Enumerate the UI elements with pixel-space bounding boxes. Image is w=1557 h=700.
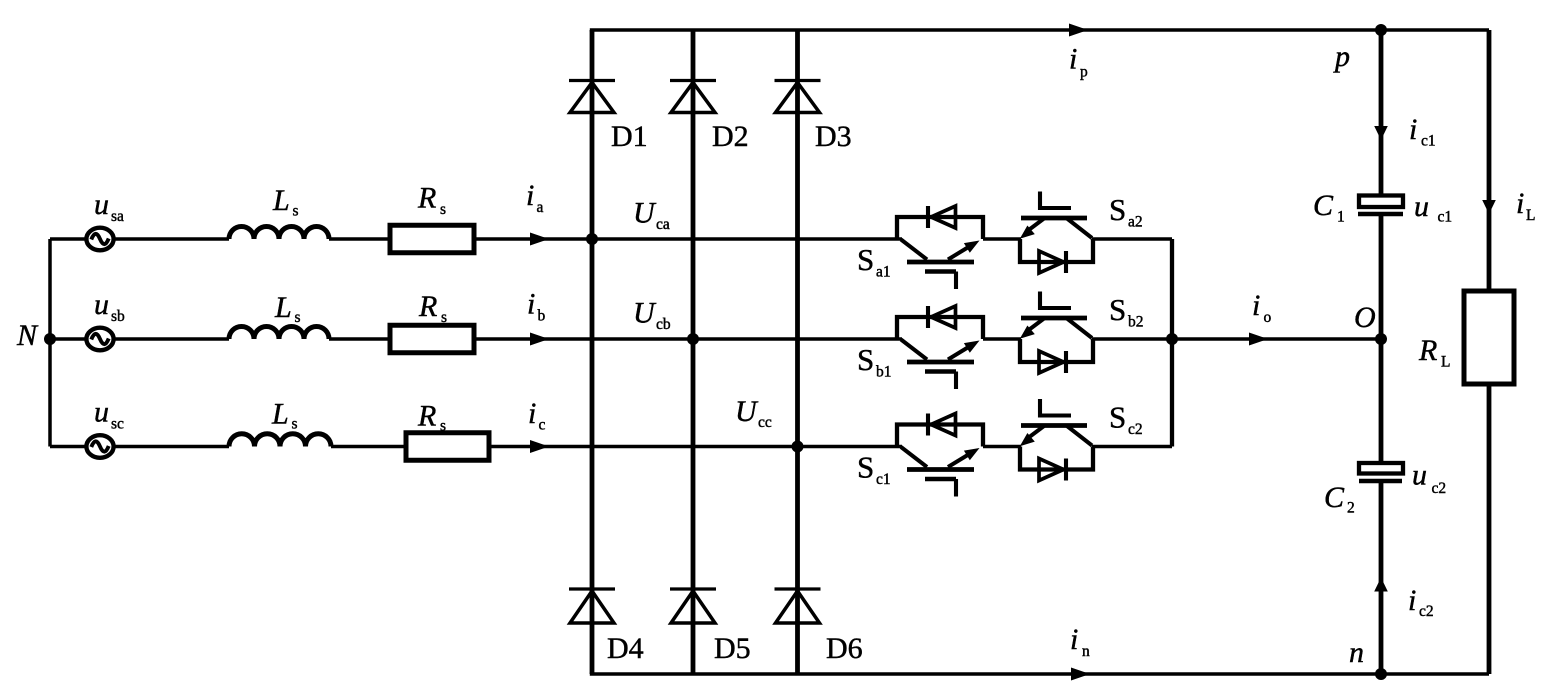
label D1 [611,120,648,153]
svg-text:R: R [417,182,436,215]
wire phase b from N to source [50,337,86,340]
ac source u_sb [86,328,113,351]
svg-text:i: i [1069,43,1077,76]
label u_c2 [1412,459,1446,498]
svg-text:L: L [1441,354,1450,371]
svg-text:n: n [1349,636,1364,669]
label S_b2 [1109,292,1144,331]
resistor Rs phase b [390,325,474,353]
label Ls phase c [271,398,298,433]
switch S_a1 (IGBT with antiparallel diode) [897,206,983,289]
switch S_c1 (IGBT with antiparallel diode) [897,414,983,497]
wire phase a resistor to bridge [474,237,902,240]
ac source u_sa [86,228,113,251]
svg-text:S: S [1109,400,1126,435]
wire right load branch [1487,30,1492,674]
label D6 [826,632,863,665]
label D4 [607,632,644,665]
svg-text:N: N [16,319,39,352]
wire C2 to n [1379,481,1384,674]
svg-text:s: s [441,309,447,326]
label RL [1418,334,1450,371]
current arrow i_o [1249,333,1268,346]
svg-text:L: L [274,291,292,324]
wire i_o to node O [1172,337,1381,340]
label i_c1 [1409,113,1436,150]
svg-text:ca: ca [656,216,670,233]
diode D5 [670,589,716,623]
svg-text:s: s [293,203,299,220]
svg-text:o: o [1264,309,1272,326]
svg-text:u: u [94,288,109,321]
svg-text:R: R [1418,334,1437,367]
svg-text:R: R [417,400,436,433]
node n junction dot [1375,668,1387,680]
svg-text:b1: b1 [876,364,892,381]
svg-text:u: u [1412,459,1427,492]
svg-text:i: i [1252,289,1260,322]
wire C1 to C2 through O [1379,215,1384,464]
node phase a - D1 leg junction dot [586,233,598,245]
current arrow i_c2 [1374,578,1388,592]
wire between S_c1 and S_c2 [983,445,1021,448]
label D2 [712,120,749,153]
svg-text:D2: D2 [712,120,749,153]
svg-text:U: U [735,395,759,428]
svg-text:C: C [1313,189,1334,222]
svg-text:a: a [537,199,544,216]
wire phase b source to inductor [114,337,229,340]
current arrow i_n [1071,668,1090,681]
current arrow i_L [1482,200,1496,214]
label S_a2 [1109,192,1143,231]
svg-text:i: i [1408,584,1416,617]
label i_L [1516,187,1535,224]
label u_sa [94,188,124,225]
diode D3 [775,81,821,113]
svg-text:s: s [295,309,301,326]
wire between S_a1 and S_a2 [983,237,1021,240]
label D3 [815,120,852,153]
inductor Ls phase c [229,434,331,447]
svg-text:L: L [1526,207,1535,224]
label C2 [1324,481,1355,517]
wire phase c inductor to resistor [331,445,406,448]
capacitor C2 [1359,463,1403,481]
svg-text:U: U [633,297,657,330]
svg-text:c2: c2 [1432,480,1447,497]
svg-text:s: s [292,416,298,433]
svg-text:c1: c1 [1421,133,1436,150]
capacitor C1 [1358,196,1403,215]
label O [1354,301,1376,334]
label n [1349,636,1364,669]
label u_sb [94,288,125,325]
wire phase b inductor to resistor [329,337,390,340]
svg-text:c1: c1 [876,471,891,488]
wire diode leg D3-D6 [795,30,800,674]
svg-text:i: i [526,179,534,212]
label S_c2 [1109,400,1143,439]
label i_p [1069,43,1088,81]
svg-text:i: i [528,397,536,430]
node N junction dot [44,333,56,345]
wire between S_b1 and S_b2 [983,337,1021,340]
svg-text:D3: D3 [815,120,852,153]
wire midpoint bus [1170,239,1174,447]
node phase b - D2 leg junction dot [687,333,699,345]
wire phase a source to inductor [114,237,229,240]
label U_ca [633,197,670,234]
svg-text:a2: a2 [1128,214,1143,231]
svg-text:cc: cc [758,414,772,431]
svg-text:u: u [1414,190,1429,223]
switch S_b1 (IGBT with antiparallel diode) [897,306,983,389]
current arrow i_a [530,233,549,246]
svg-text:U: U [633,197,657,230]
label i_n [1070,623,1090,660]
label D5 [714,632,751,665]
wire diode leg D1-D4 [590,30,595,674]
label Rs phase a [417,182,446,219]
svg-text:O: O [1354,301,1376,334]
diode D2 [670,81,716,113]
svg-text:S: S [1109,192,1126,227]
diode D6 [775,589,821,623]
wire phase b resistor to bridge [474,337,902,340]
label i_c2 [1408,584,1434,620]
svg-text:s: s [440,201,446,218]
label i_a [526,179,544,216]
svg-text:n: n [1082,643,1090,660]
svg-text:2: 2 [1347,500,1355,517]
wire diode leg D2-D5 [691,30,696,674]
node O junction dot [1375,333,1387,345]
svg-text:i: i [1409,113,1417,146]
label Rs phase c [417,400,446,435]
label u_sc [94,396,124,433]
wire S_a2 output to midpoint bus [1092,237,1172,240]
label Ls phase a [272,184,299,220]
resistor Rs phase a [390,225,474,253]
node midpoint bus - i_o junction dot [1166,333,1178,345]
node p junction dot [1375,24,1387,36]
label U_cc [735,395,772,431]
svg-text:L: L [271,398,289,431]
label Ls phase b [274,291,301,326]
svg-text:1: 1 [1337,209,1345,226]
svg-text:D1: D1 [611,120,648,153]
svg-text:a1: a1 [876,264,891,281]
svg-text:D6: D6 [826,632,863,665]
wire phase a inductor to resistor [329,237,390,240]
resistor Rs phase c [406,433,489,461]
wire phase c from N to source [50,445,86,448]
svg-text:p: p [1333,40,1350,73]
svg-text:s: s [440,418,446,435]
current arrow i_c1 [1374,126,1388,140]
wire p to C1 [1379,30,1384,196]
svg-text:D4: D4 [607,632,644,665]
svg-text:L: L [272,184,290,217]
label p [1333,40,1350,73]
label i_b [527,288,546,325]
svg-text:cb: cb [656,316,671,333]
label u_c1 [1414,190,1452,226]
svg-text:S: S [857,450,874,485]
node phase c - D3 leg junction dot [792,441,804,453]
switch S_c2 (IGBT with antiparallel diode) [1020,399,1093,481]
svg-text:R: R [418,290,437,323]
svg-text:D5: D5 [714,632,751,665]
svg-text:c1: c1 [1438,209,1453,226]
ac source u_sc [86,435,113,458]
svg-text:i: i [1516,187,1524,220]
label C1 [1313,189,1345,226]
diode D1 [569,81,615,113]
current arrow i_c [530,440,549,453]
wire phase c resistor to bridge [489,445,902,448]
current arrow i_p [1069,24,1088,37]
svg-text:sc: sc [111,416,124,433]
svg-text:b2: b2 [1128,314,1144,331]
inductor Ls phase b [229,327,329,340]
svg-text:C: C [1324,481,1345,514]
wire top dc rail p [590,28,1489,31]
wire neutral bus N [48,239,52,447]
label i_o [1252,289,1272,326]
svg-text:sb: sb [111,308,125,325]
svg-text:S: S [1109,292,1126,327]
wire bottom dc rail n [590,672,1489,675]
label N [16,319,39,352]
label Rs phase b [418,290,447,326]
diode D4 [569,589,615,623]
svg-text:sa: sa [111,208,124,225]
label S_a1 [857,242,891,281]
resistor RL [1464,291,1514,384]
svg-text:S: S [857,242,874,277]
svg-text:S: S [857,342,874,377]
current arrow i_b [530,333,549,346]
label S_c1 [857,450,891,489]
switch S_a2 (IGBT with antiparallel diode) [1020,192,1093,274]
svg-text:u: u [94,188,109,221]
svg-text:p: p [1080,64,1088,81]
inductor Ls phase a [229,226,329,239]
wire phase a from N to source [50,237,86,240]
svg-text:u: u [94,396,109,429]
wire S_b2 output to midpoint bus [1092,337,1172,340]
wire S_c2 output to midpoint bus [1092,445,1172,448]
svg-text:i: i [527,288,535,321]
svg-text:i: i [1070,623,1078,656]
svg-text:b: b [538,308,546,325]
label S_b1 [857,342,892,381]
svg-text:c: c [539,417,546,434]
label U_cb [633,297,671,334]
wire phase c source to inductor [114,445,229,448]
svg-text:c2: c2 [1128,421,1143,438]
label i_c [528,397,546,434]
switch S_b2 (IGBT with antiparallel diode) [1020,292,1093,374]
svg-text:c2: c2 [1419,603,1434,620]
